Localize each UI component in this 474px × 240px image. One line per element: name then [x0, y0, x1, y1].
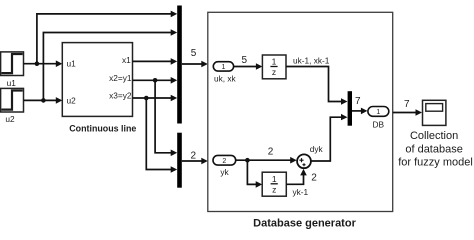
junction dot x3=y2 tap — [144, 96, 149, 101]
svg-text:1: 1 — [221, 64, 225, 71]
wire u2 riser to mux input 2 — [43, 29, 177, 100]
wire mux2 output to Database generator — [182, 158, 208, 165]
wire mux1 output to Database generator — [182, 61, 208, 68]
svg-text:1: 1 — [376, 109, 380, 116]
inport 1 uk,xk — [213, 62, 233, 71]
wire inport1 to unit delay U1 — [234, 63, 263, 70]
svg-text:Collection: Collection — [410, 130, 458, 142]
To Workspace block (collection) — [423, 100, 446, 125]
svg-text:yk: yk — [220, 167, 229, 177]
svg-text:z: z — [272, 185, 276, 195]
svg-text:7: 7 — [355, 96, 361, 107]
wire x3=y2 drop to mux2 input 2 — [146, 98, 177, 173]
svg-text:u2: u2 — [67, 95, 77, 105]
wire u2 to Continuous line input — [24, 97, 63, 104]
svg-text:yk-1: yk-1 — [293, 187, 309, 197]
mux Mux2 (2 inputs) — [177, 133, 182, 188]
caption Collection of database for fuzzy model — [398, 130, 473, 168]
wire yk tap drop to unit delay U2 — [247, 160, 262, 188]
step source block u2 — [1, 88, 24, 112]
svg-text:DB: DB — [373, 119, 385, 129]
svg-text:x2=y1: x2=y1 — [109, 73, 132, 83]
unit delay block 1/z (upper) — [262, 55, 286, 79]
svg-text:uk, xk: uk, xk — [214, 74, 237, 84]
outport 1 DB — [368, 107, 389, 117]
svg-text:2: 2 — [191, 151, 197, 162]
svg-text:for fuzzy model: for fuzzy model — [398, 157, 473, 169]
wire sum output dyk to mux3 input 2 — [311, 114, 348, 161]
unit delay block 1/z (lower) — [262, 172, 286, 196]
wire Database generator to Collection block — [393, 109, 422, 116]
svg-text:2: 2 — [222, 158, 226, 165]
svg-text:1: 1 — [272, 174, 277, 184]
svg-text:5: 5 — [242, 55, 248, 66]
wire u1 riser to mux input 1 — [37, 11, 177, 64]
svg-text:2: 2 — [268, 147, 274, 158]
svg-text:u1: u1 — [7, 78, 17, 88]
wire inport2 to sum — [236, 157, 297, 164]
svg-text:7: 7 — [404, 99, 410, 110]
wire x3=y2 to mux input 5 — [133, 95, 178, 102]
junction dot u2 tap — [41, 98, 46, 103]
wire x1 to mux input 3 — [133, 58, 178, 65]
svg-text:1: 1 — [272, 57, 277, 67]
mux Mux3 (2 inputs) — [348, 91, 352, 126]
wire u1 to Continuous line input — [24, 60, 63, 67]
wire x2=y1 to mux input 4 — [133, 77, 178, 84]
svg-text:z: z — [272, 67, 276, 77]
svg-text:u1: u1 — [67, 59, 77, 69]
svg-text:x1: x1 — [122, 55, 131, 65]
svg-text:dyk: dyk — [310, 144, 324, 154]
svg-text:Continuous line: Continuous line — [69, 124, 136, 134]
svg-text:5: 5 — [191, 48, 197, 59]
subsystem box Database generator — [208, 12, 393, 211]
sum block — [297, 154, 311, 168]
svg-text:of database: of database — [405, 143, 463, 155]
junction dot u1 tap — [35, 61, 40, 66]
wire unit delay U2 to sum bottom input — [286, 169, 307, 184]
svg-text:2: 2 — [311, 173, 317, 184]
svg-text:uk-1, xk-1: uk-1, xk-1 — [293, 55, 330, 65]
step source block u1 — [1, 52, 24, 76]
wire mux3 output to outport DB — [352, 108, 367, 115]
mux Mux1 (5 inputs) — [177, 6, 182, 124]
inport 2 yk — [213, 155, 236, 165]
subsystem block Continuous line — [62, 43, 132, 117]
junction dot yk tap — [245, 158, 250, 163]
svg-text:u2: u2 — [5, 114, 15, 124]
junction dot x2=y1 tap — [153, 78, 158, 83]
svg-text:x3=y2: x3=y2 — [109, 91, 132, 101]
svg-text:Database generator: Database generator — [253, 217, 356, 229]
wire unit delay U1 to mux3 input 1 — [286, 67, 348, 105]
wire x2=y1 drop to mux2 input 1 — [155, 80, 177, 156]
